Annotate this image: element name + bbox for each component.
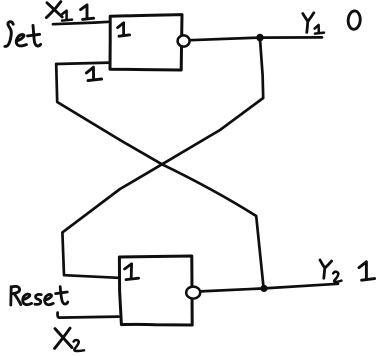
label Reset [11, 286, 68, 305]
output bubble U1 [178, 35, 190, 46]
label Y1 [303, 13, 324, 34]
label value 0 on Y1 [348, 11, 361, 30]
label value 1 on Y2 [359, 262, 375, 280]
junction node Y2 [260, 285, 267, 292]
junction node Y1 [256, 34, 264, 42]
wire Reset / X2 input [57, 313, 118, 318]
wire feedback Y2 to U1 (left vertical + diagonal down-right + right vertical) [56, 64, 263, 287]
label Set [5, 22, 41, 47]
label 1 on feedback input [86, 67, 101, 80]
wire feedback Y1 to U2 (right vertical + diagonal down-left + left vertical + entry) [62, 39, 263, 278]
wire X1 input [53, 22, 109, 24]
label X1 [46, 2, 72, 21]
label 1 inside U1 [118, 23, 130, 36]
NOR gate U1 body [110, 15, 182, 70]
label value 1 on X1 [81, 5, 94, 20]
wire feedback input to U1 (from Y2) [56, 63, 110, 64]
wire Y2 output [200, 284, 338, 292]
label Y2 [320, 260, 341, 282]
wire Y1 output [190, 37, 322, 40]
label X2 [55, 328, 84, 351]
NOR gate U2 body [119, 256, 192, 325]
output bubble U2 [186, 287, 200, 299]
label 1 inside U2 [125, 264, 139, 280]
